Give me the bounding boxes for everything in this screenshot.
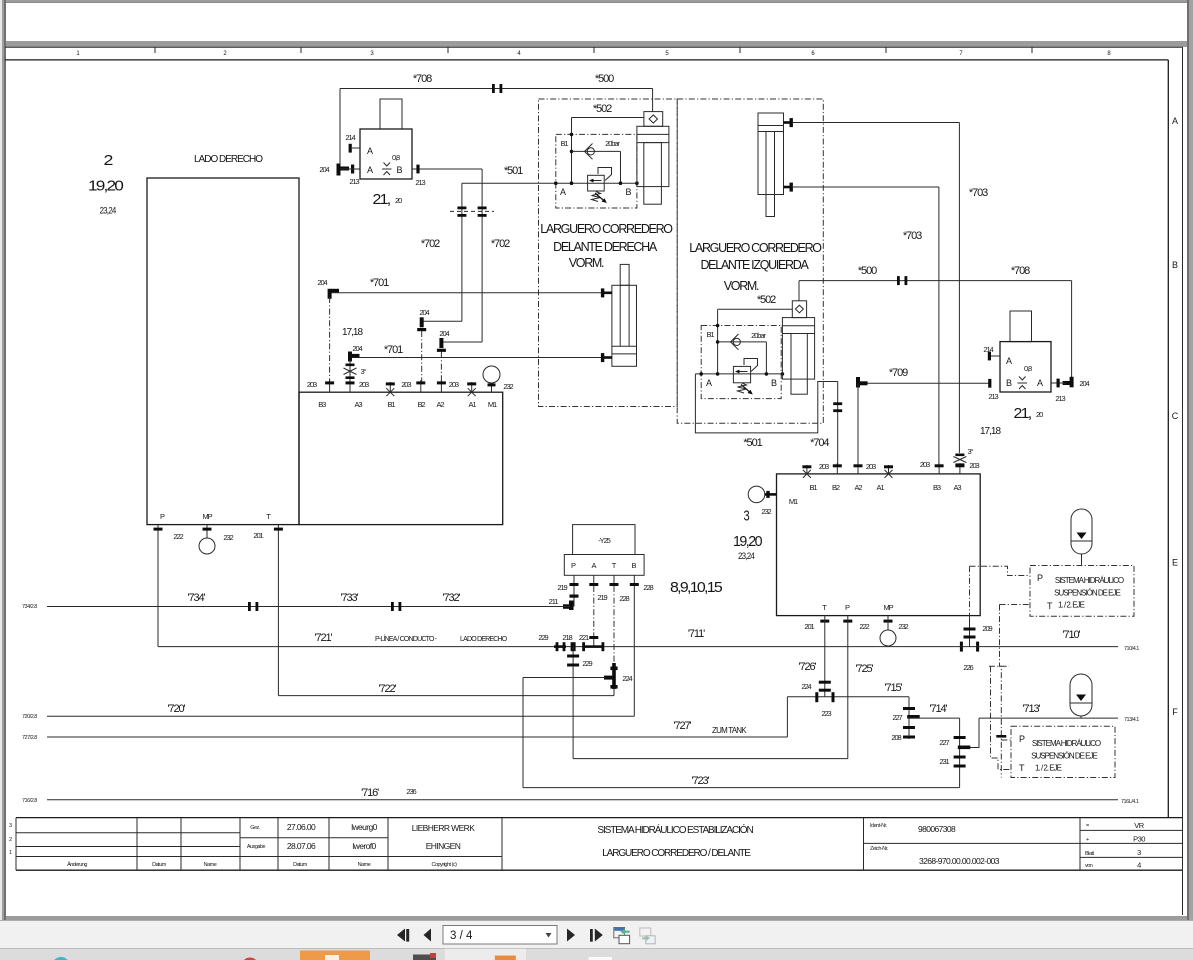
X plugs on B1 A1 [386, 388, 475, 396]
P port stub + wire down to '721 [157, 525, 159, 647]
coupling pair on *702 verticals with dashed link [457, 207, 486, 217]
wire *501 horizontal [462, 182, 637, 184]
drawing frame outer border top [5, 46, 1183, 48]
valve -Y25 body [573, 525, 635, 555]
previous view icon [614, 928, 625, 938]
wire *501 izquierda U-path [695, 374, 837, 433]
wire *702 vertical right (down to A2 corner) [481, 169, 483, 342]
left valve manifold block [299, 392, 503, 524]
dash-dot connector to box1 T [1000, 604, 1031, 606]
dash-dot vertical at manifold right edge [969, 566, 971, 621]
port 214 stub valve-left [352, 147, 360, 149]
title block inner horizontals [16, 830, 1182, 857]
SISTEMA box 1 dash-dot [1030, 566, 1134, 617]
cylinder 3 cap with breather [792, 301, 806, 318]
port name labels right manifold [810, 483, 962, 492]
wire '713 [979, 717, 1118, 719]
gauge M1 right manifold [748, 486, 765, 503]
next page button [567, 929, 575, 942]
wire link to '713 [970, 718, 979, 747]
wire '715 [848, 696, 909, 698]
wire cyl4 top port to A3 riser [793, 122, 960, 124]
dash-dot wire Y25 A down to '721 [593, 586, 595, 637]
right manifold block [777, 474, 981, 616]
cylinder 2 port stubs [601, 288, 604, 297]
A-B line izquierda [695, 373, 782, 375]
wire *708 down to valve right [1071, 281, 1073, 383]
gauge M1 left manifold [483, 366, 500, 383]
IZQUIERDA section dash-dot box [677, 99, 823, 423]
title block small header labels [67, 825, 457, 868]
frame row letters A B C E F [1172, 116, 1179, 717]
valve 227/208 drop [908, 697, 910, 739]
wire '720 [47, 715, 634, 717]
wire '714 [909, 717, 960, 719]
valve U1 left (0,8 throttle valve 21) [360, 129, 412, 179]
riser wire *703 left [938, 187, 940, 466]
corner fitting 204 at A3 riser [348, 352, 360, 362]
wire *500/*708 right line [799, 280, 1072, 282]
drawing frame inner border top [5, 59, 1168, 61]
accumulator 2 [1070, 674, 1092, 716]
corner fitting 204 to B2 (left manifold) [422, 320, 462, 322]
wire *502 derecha [572, 117, 644, 119]
wire valve-left B port to the right [412, 168, 482, 170]
fitting 224 below Y25 T [604, 663, 618, 689]
coupling on *500 right [897, 276, 907, 285]
drawing frame outer border right [1182, 47, 1184, 915]
corner fitting 204 at valve A [337, 164, 355, 176]
spring derecha [592, 192, 601, 202]
sheet info sub-table [1085, 823, 1094, 869]
wire *708/*500 top line [340, 88, 653, 90]
riser x=523 down to '723 [522, 678, 524, 788]
PDF viewer bottom toolbar [0, 920, 1193, 949]
throttle 3 deg on A3 right [955, 454, 964, 467]
next view icon (disabled) [640, 928, 651, 936]
right manifold top port stubs [807, 463, 960, 474]
LADO DERECHO main block [147, 178, 299, 525]
inner relief-valve dash-dot box (derecha) [556, 134, 637, 208]
Y25 port stubs [574, 575, 634, 586]
relief valve R-V izquierda [733, 366, 750, 382]
valve -Y25 port block [564, 555, 644, 576]
check valve 20bar izquierda [718, 341, 767, 343]
dash-dot connector to box2 T [991, 666, 1012, 769]
dash-dot connector to box1 P [970, 566, 1031, 575]
cylinder 1 (larguero derecha) [637, 126, 669, 186]
left manifold port stubs row [330, 380, 492, 392]
wire P port down ('725) [847, 616, 849, 759]
valve U2 right (0,8 throttle valve 21) [1000, 342, 1051, 392]
fitting 229 drop below '721 [572, 647, 574, 759]
wire y=758.6 cross link [573, 758, 848, 760]
cylinder 4 port stubs [784, 121, 792, 124]
bottom stubs right manifold [820, 620, 892, 623]
solenoid box of valve 21 right [1010, 311, 1032, 342]
svg-text:3 / 4: 3 / 4 [450, 930, 473, 942]
wire check to B node izquierda [765, 342, 767, 374]
corner fitting 204 to A2 (left manifold) [441, 341, 482, 343]
SISTEMA box 2 dash-dot [1011, 726, 1115, 777]
right window edge [1187, 0, 1189, 920]
check valve 20bar derecha [572, 150, 621, 152]
first page button [397, 929, 405, 942]
node B1 izquierda [716, 324, 720, 328]
corner fitting 204 valve-right [1063, 377, 1074, 388]
taskbar app icons (partially visible) [52, 957, 70, 960]
spring izquierda [738, 383, 747, 393]
valve-left internal arrows [384, 163, 391, 167]
dash-dot spur 226 [989, 665, 1009, 667]
cylinder 4 (izquierda tall) [758, 113, 784, 195]
DERECHA section dash-dot box [539, 99, 678, 407]
dash-dot wire to port B2 left manifold [421, 331, 423, 382]
T port stub + wire down to '722 [277, 525, 279, 696]
LIEBHERR WERK EHINGEN cell [412, 823, 476, 851]
cylinder 3 (larguero izquierda) [782, 318, 814, 380]
dash-dot connector to box2 P [1001, 739, 1011, 741]
wire cyl4 bottom port to B3 riser [793, 186, 939, 188]
OS taskbar strip [0, 948, 1193, 960]
LADO DERECHO bottom port labels [160, 512, 271, 521]
coupling on *704 [833, 402, 842, 412]
wire *701 upper [330, 292, 602, 294]
wire from *708 down to valve A [339, 89, 341, 170]
A-B line through relief valve derecha [554, 181, 558, 185]
coupling 223/224 on T riser [815, 681, 834, 703]
last page button [590, 929, 593, 942]
dash-dot drop to lower region [1000, 605, 1002, 778]
fitting cluster on '721 at Y25 [554, 642, 604, 651]
previous page button [424, 929, 432, 942]
wire *500 down to cylinder 3 cap [798, 281, 800, 301]
solenoid box of valve 21 left [380, 99, 402, 129]
ruler tick marks [155, 47, 1032, 53]
page number box [443, 926, 557, 945]
MP stub + gauge [206, 525, 208, 538]
cylinder 1 cap with breather [644, 112, 663, 127]
title block date/name values [287, 822, 378, 851]
ruler numbers 1-8 [76, 51, 1111, 57]
wire *709 from valve right B to A2 riser [858, 382, 991, 384]
cylinder 2 (derecha lower, rod up) [620, 264, 629, 285]
dash-dot tick on lower drop [996, 735, 1006, 738]
wire *704 vertical to B2 [837, 382, 839, 467]
wire y=677.5 from fitting 224 to left riser [523, 677, 605, 679]
accumulator 1 [1071, 509, 1092, 554]
dash-dot riser B3 left manifold [329, 297, 331, 382]
wire '734 '733 '732 [47, 606, 570, 608]
node B1 derecha [570, 133, 574, 137]
revision row numbers [9, 823, 12, 856]
X plugs on B1 A1 right manifold [803, 470, 893, 478]
riser wire *703 right [958, 123, 960, 454]
dash-dot wire Y25 T down to fitting 224 [613, 586, 615, 663]
wire T port down ('726) [824, 616, 826, 697]
inner relief-valve dash-dot box (izquierda) [701, 326, 781, 399]
fitting 209 on '710 line [969, 616, 971, 647]
wire Y25 P down to '734 with fitting 211 [573, 586, 575, 607]
riser ZUM TANK x=787.4 [786, 697, 788, 737]
wire '723 [523, 787, 960, 789]
port name labels left manifold [307, 380, 514, 391]
wire '721 / '711 / '710 long P-line [158, 646, 1118, 648]
wire *502 izquierda [718, 308, 793, 310]
left window edge [0, 0, 2, 920]
window top white toolbar area [5, 2, 1187, 41]
drawing frame inner border right [1167, 60, 1169, 818]
wire '722 [278, 695, 614, 697]
dash-dot wire to port A2 left manifold [440, 352, 442, 382]
wire check to B node derecha [620, 151, 622, 183]
wire y=696.7 to P riser [787, 696, 847, 698]
title block outer horizontals [16, 818, 1182, 871]
wire *701 lower [350, 357, 602, 359]
main title text [597, 823, 753, 859]
gauge MP right [887, 616, 889, 630]
throttle 3 deg on A3 riser [349, 360, 351, 382]
203 labels right manifold [819, 460, 980, 471]
wire *702 vertical left (down to B2 corner) [461, 183, 463, 321]
coupling on *708 line [492, 84, 502, 93]
wire Y25 B down to '720 [633, 586, 635, 716]
wire '727 ZUM TANK [47, 736, 787, 738]
port 214 stub valve-right [991, 355, 1000, 357]
corner fitting 204 at B3 riser [328, 289, 339, 299]
valve 227/231 drop [959, 718, 961, 788]
right manifold bottom port labels [822, 603, 893, 612]
relief valve R-V derecha [588, 175, 605, 191]
wire '716 [47, 799, 1118, 801]
title block verticals [16, 818, 1080, 871]
